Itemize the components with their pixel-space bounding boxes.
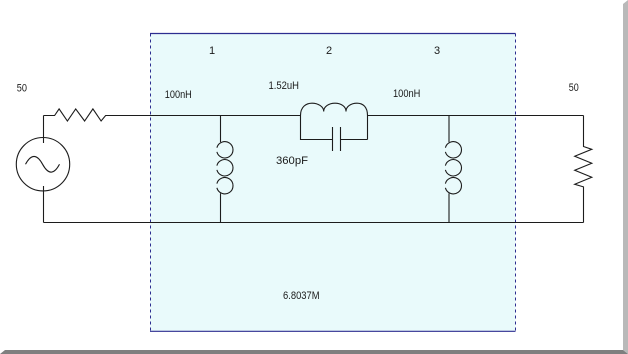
svg-text:360pF: 360pF	[276, 155, 308, 167]
svg-text:6.8037M: 6.8037M	[283, 290, 320, 302]
svg-text:3: 3	[434, 45, 440, 57]
svg-text:50: 50	[17, 83, 27, 95]
svg-text:100nH: 100nH	[165, 89, 192, 101]
svg-text:100nH: 100nH	[393, 88, 420, 100]
svg-text:1.52uH: 1.52uH	[269, 80, 300, 92]
svg-text:1: 1	[209, 45, 215, 57]
svg-text:50: 50	[569, 82, 579, 94]
svg-text:2: 2	[326, 45, 332, 57]
